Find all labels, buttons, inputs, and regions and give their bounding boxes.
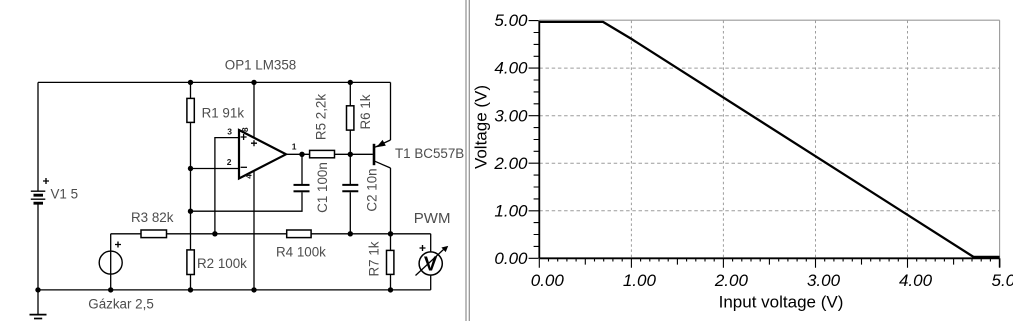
junction collector-R7 bbox=[388, 231, 393, 236]
svg-text:R1 91k: R1 91k bbox=[202, 105, 245, 120]
svg-text:4.00: 4.00 bbox=[899, 271, 933, 290]
junction rail-R6 bbox=[348, 80, 353, 85]
chart plot border bbox=[539, 20, 999, 258]
capacitor C2 bbox=[342, 168, 379, 211]
svg-text:R4 100k: R4 100k bbox=[276, 244, 326, 259]
resistor R1 bbox=[187, 98, 244, 122]
wire R1 R2 vertical branch bbox=[190, 82, 192, 290]
resistor R6 bbox=[347, 94, 374, 130]
svg-text:8: 8 bbox=[240, 127, 250, 132]
wire mid horizontal net bbox=[111, 233, 431, 235]
wire transistor base stub bbox=[350, 153, 373, 155]
chart y ticks bbox=[529, 21, 539, 259]
transistor T1 BC557B bbox=[374, 140, 464, 168]
junction ground-pin4 bbox=[251, 287, 256, 292]
svg-text:C1 100n: C1 100n bbox=[315, 162, 330, 213]
svg-text:0.00: 0.00 bbox=[531, 271, 565, 290]
voltmeter PWM bbox=[414, 210, 451, 276]
chart y axis title bbox=[472, 85, 491, 169]
wire top supply rail bbox=[38, 81, 391, 83]
resistor R5 bbox=[310, 94, 335, 158]
svg-text:Voltage (V): Voltage (V) bbox=[472, 85, 491, 169]
svg-text:2.00: 2.00 bbox=[493, 154, 528, 173]
svg-text:C2 10n: C2 10n bbox=[364, 168, 379, 211]
resistor R4 bbox=[276, 230, 326, 259]
pin number 3 bbox=[227, 126, 232, 136]
svg-text:5.00: 5.00 bbox=[494, 11, 528, 30]
label OP1 LM358 bbox=[225, 57, 296, 72]
svg-text:1.00: 1.00 bbox=[623, 271, 657, 290]
junction ground-battery bbox=[35, 287, 40, 292]
pin number 8 bbox=[240, 127, 250, 132]
junction pin2 node bbox=[188, 166, 193, 171]
svg-text:R7 1k: R7 1k bbox=[366, 241, 381, 276]
junction output-C1 bbox=[299, 152, 304, 157]
svg-text:R6 1k: R6 1k bbox=[358, 94, 373, 129]
junction rail-R1 bbox=[188, 80, 193, 85]
chart x labels bbox=[531, 271, 1013, 290]
wire op-amp pin3 branch bbox=[215, 138, 239, 234]
junction rail-pin8 bbox=[251, 80, 256, 85]
chart gridlines bbox=[539, 21, 999, 259]
svg-text:Input voltage (V): Input voltage (V) bbox=[719, 293, 844, 312]
junction ground-R7 bbox=[388, 287, 393, 292]
chart x axis title bbox=[719, 293, 844, 312]
svg-text:T1 BC557B: T1 BC557B bbox=[395, 146, 464, 161]
svg-text:R5 2,2k: R5 2,2k bbox=[314, 94, 329, 140]
svg-text:3: 3 bbox=[227, 126, 232, 136]
wire op-amp pin8 power stub bbox=[253, 82, 255, 139]
svg-text:R3 82k: R3 82k bbox=[131, 210, 174, 225]
svg-text:5.0: 5.0 bbox=[992, 271, 1013, 290]
junction feedback node bbox=[188, 209, 193, 214]
source Gazkar 2,5 bbox=[88, 234, 154, 312]
wire R6 branch bbox=[349, 82, 351, 154]
wire bottom ground rail bbox=[38, 289, 431, 291]
svg-text:1.00: 1.00 bbox=[494, 201, 528, 220]
op-amp OP1 LM358 bbox=[239, 130, 286, 179]
svg-text:3.00: 3.00 bbox=[807, 271, 841, 290]
chart x ticks bbox=[539, 259, 999, 268]
panel separator bbox=[466, 0, 469, 321]
wire C2 branch bbox=[349, 154, 351, 234]
chart axes bbox=[539, 21, 999, 268]
pin number 2 bbox=[227, 157, 232, 167]
curve PWM voltage bbox=[540, 22, 1000, 257]
svg-text:2: 2 bbox=[227, 157, 232, 167]
capacitor C1 bbox=[294, 162, 331, 213]
battery V1 5 bbox=[31, 178, 78, 203]
wire collector drop bbox=[390, 168, 392, 234]
wire voltmeter drop bbox=[430, 234, 432, 290]
wire C1 feedback net bbox=[191, 154, 303, 211]
junction pin3 node bbox=[212, 231, 217, 236]
wire R7 branch bbox=[390, 234, 392, 290]
pin number 1 bbox=[292, 141, 297, 151]
junction C2-R4 bbox=[348, 231, 353, 236]
wire op-amp pin4 branch bbox=[253, 170, 255, 290]
svg-text:Gázkar 2,5: Gázkar 2,5 bbox=[88, 297, 154, 312]
svg-text:0.00: 0.00 bbox=[494, 249, 528, 268]
chart y labels bbox=[493, 11, 528, 268]
svg-text:3.00: 3.00 bbox=[494, 106, 528, 125]
pin number 4 bbox=[244, 174, 254, 179]
resistor R7 bbox=[366, 241, 394, 276]
svg-text:4: 4 bbox=[244, 174, 254, 179]
wire emitter to rail bbox=[390, 82, 392, 140]
svg-text:R2 100k: R2 100k bbox=[197, 256, 247, 271]
svg-text:4.00: 4.00 bbox=[494, 59, 528, 78]
wire op-amp pin2 stub bbox=[191, 168, 240, 170]
junction base node bbox=[348, 152, 353, 157]
resistor R3 bbox=[131, 210, 174, 238]
svg-text:1: 1 bbox=[292, 141, 297, 151]
svg-text:V1 5: V1 5 bbox=[51, 187, 79, 202]
junction ground-R2 bbox=[188, 287, 193, 292]
junction ground-source bbox=[108, 287, 113, 292]
wire left vertical battery branch bbox=[37, 82, 39, 290]
svg-text:OP1 LM358: OP1 LM358 bbox=[225, 57, 296, 72]
svg-text:PWM: PWM bbox=[414, 210, 451, 227]
wire op-amp output net bbox=[286, 153, 350, 155]
ground bbox=[30, 290, 47, 319]
resistor R2 bbox=[187, 250, 247, 275]
svg-text:2.00: 2.00 bbox=[714, 271, 749, 290]
